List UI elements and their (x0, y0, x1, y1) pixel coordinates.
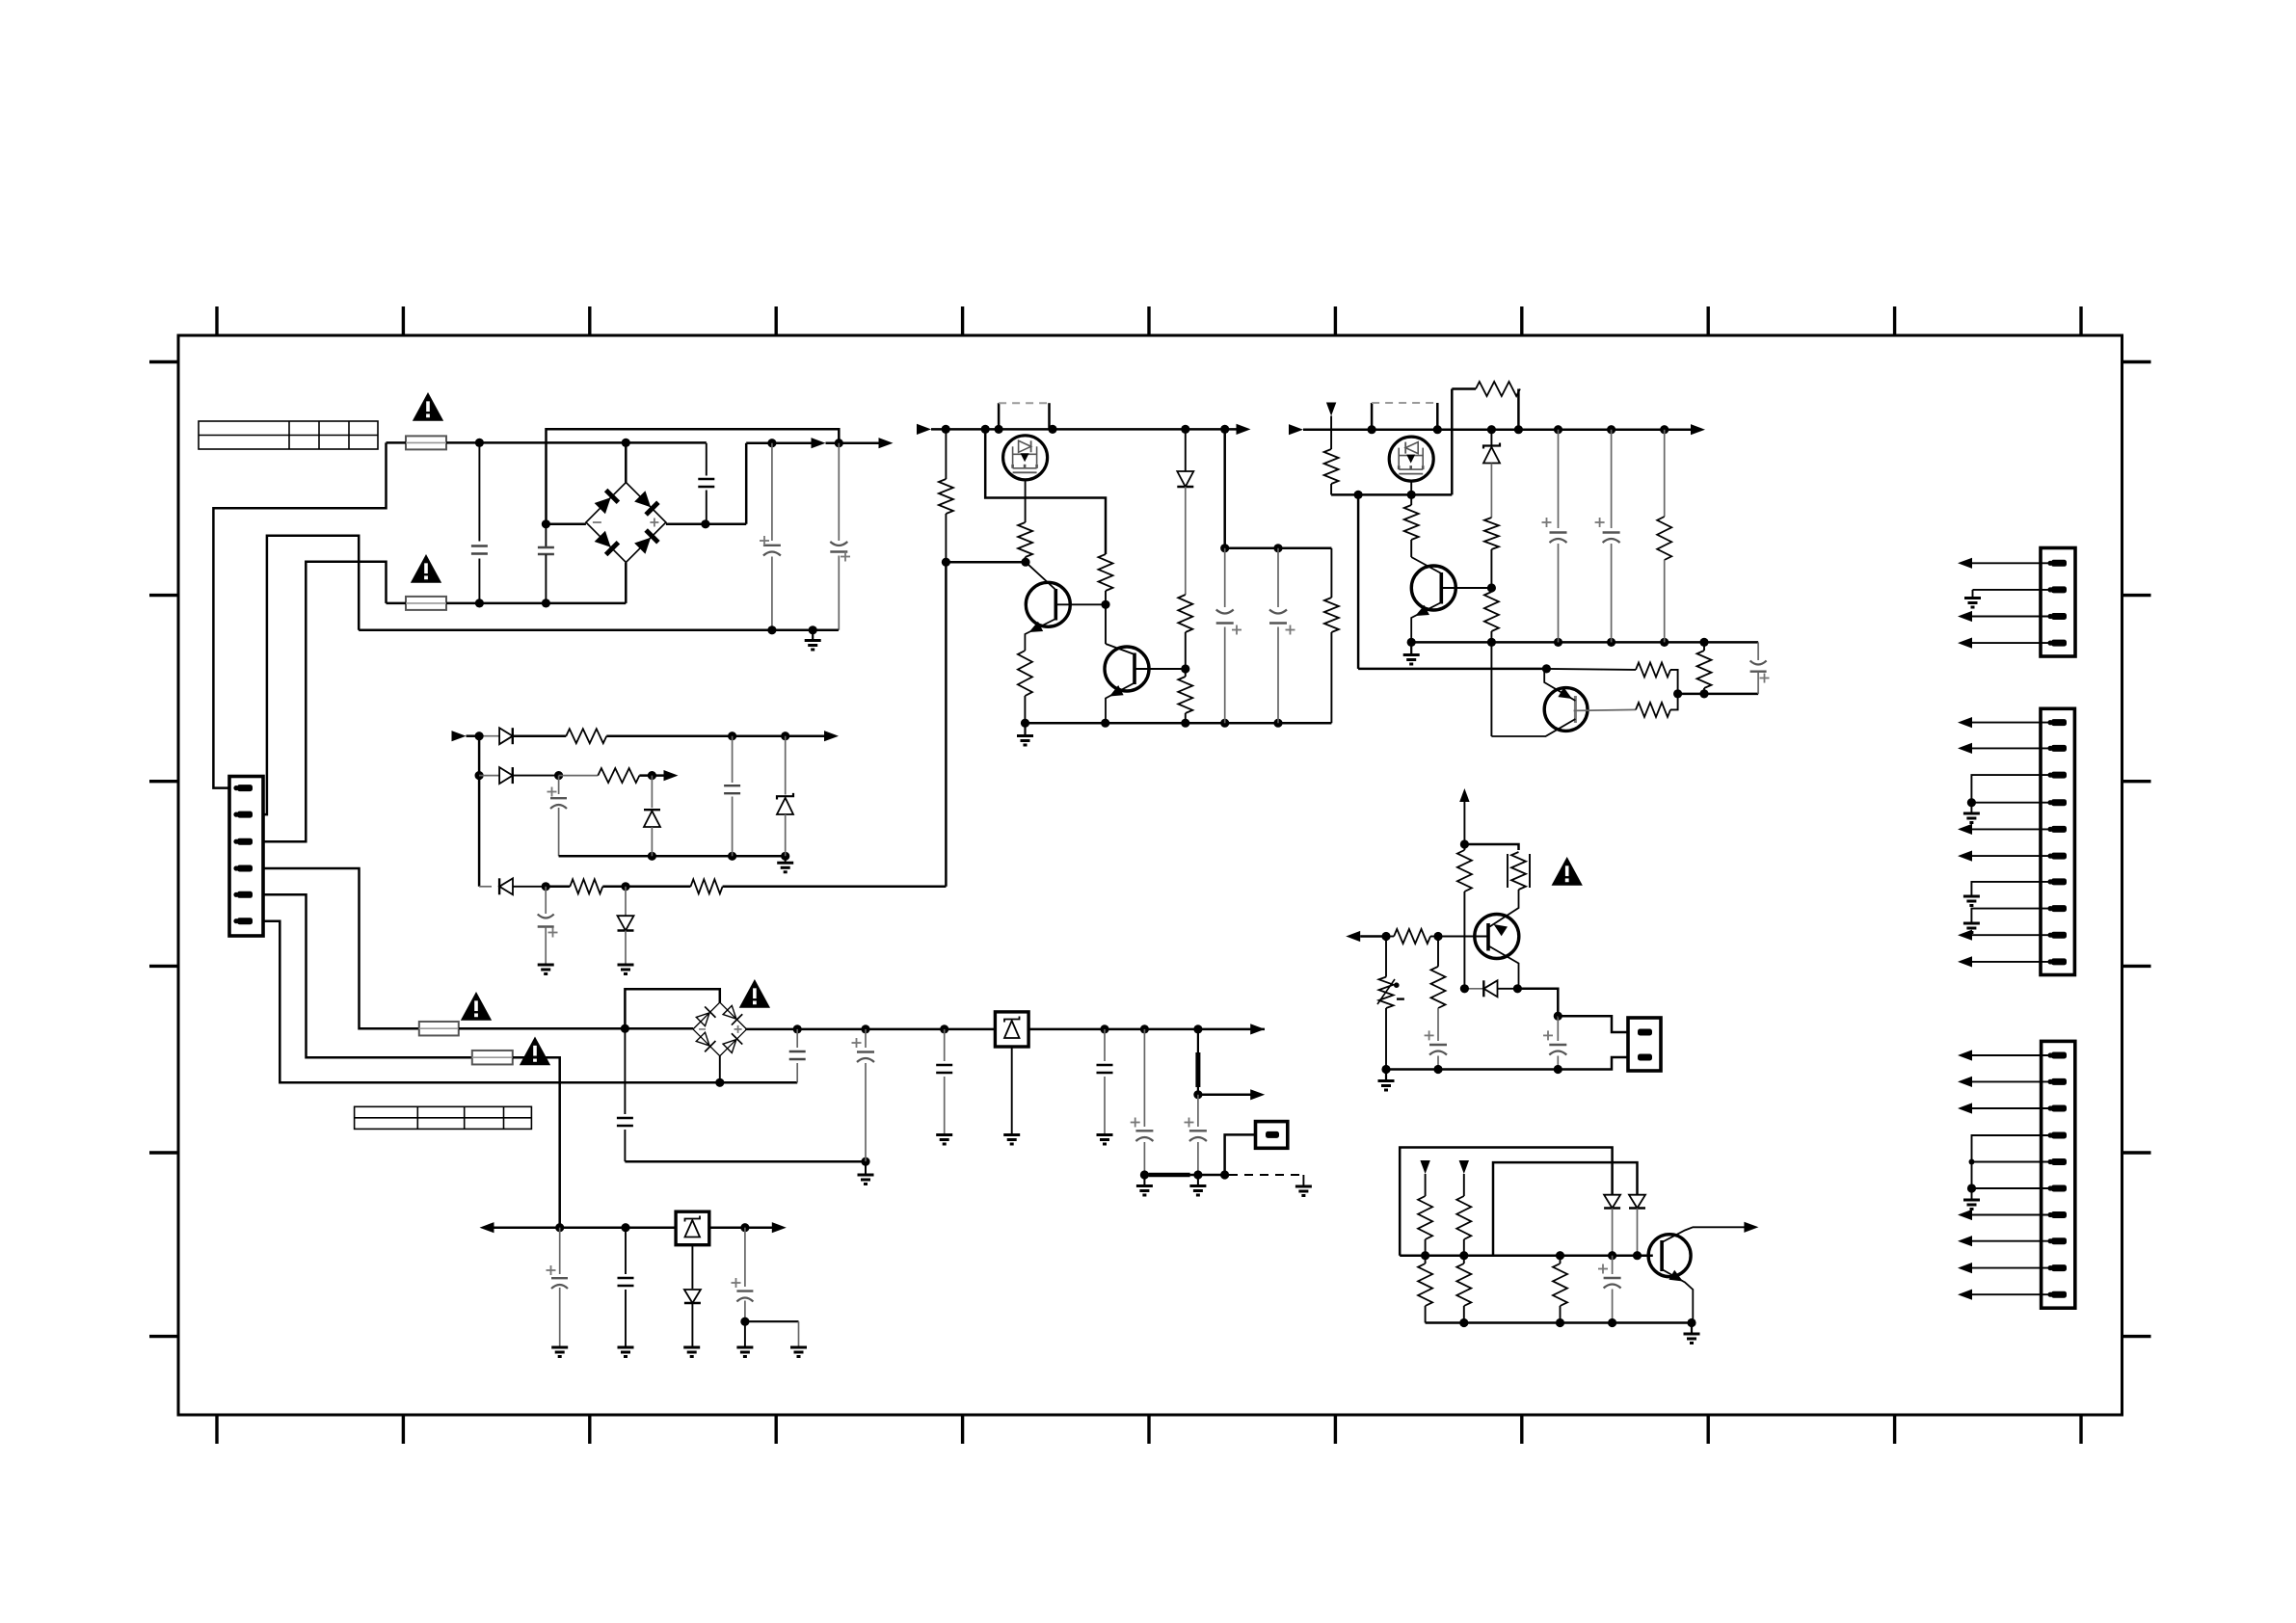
warning triangle W2 (411, 554, 441, 583)
arrow (452, 731, 467, 741)
junction (542, 882, 550, 891)
wire (1972, 1214, 2051, 1216)
junction (1607, 425, 1615, 434)
junction (1687, 1318, 1695, 1327)
resistor R7 (1178, 595, 1192, 632)
junction (1459, 1251, 1468, 1260)
wire base Q3 (1135, 668, 1186, 670)
connector J3 pin 7 (2047, 1211, 2067, 1218)
capacitor C16 (1131, 1029, 1154, 1175)
boxed zener U2 (676, 1211, 709, 1245)
diode D9 (684, 1245, 701, 1347)
junction (648, 771, 656, 780)
wire (1463, 1239, 1465, 1256)
wire (1972, 934, 2051, 936)
junction (1193, 1090, 1202, 1099)
connector J3 pin 8 (2047, 1237, 2067, 1244)
arrow (1237, 424, 1251, 435)
connector J3 pin 6 (2047, 1185, 2067, 1192)
wire (1185, 669, 1187, 723)
capacitor C19 (618, 1228, 634, 1347)
wire loop (547, 429, 840, 524)
wire (1670, 670, 1678, 694)
wire pin1 feed (213, 442, 386, 787)
junction (1487, 638, 1496, 647)
ground (1017, 723, 1033, 745)
zener D10 (1483, 430, 1500, 518)
dashed link (1372, 403, 1437, 430)
connector J2 pin 5 (2047, 826, 2067, 833)
resistor R12 (570, 879, 602, 893)
junction (1967, 798, 1976, 807)
junction (1487, 425, 1496, 434)
resistor R11 (598, 768, 639, 783)
wire (1410, 494, 1412, 557)
resistor R14 (1324, 449, 1339, 484)
junction (1660, 425, 1669, 434)
junction (621, 882, 629, 891)
junction (1554, 1065, 1562, 1074)
junction (475, 732, 484, 740)
wire (1330, 548, 1332, 598)
border tick marks top-bottom (217, 306, 2081, 1444)
transistor Q2 (1025, 562, 1070, 651)
wire (1410, 481, 1412, 494)
off-page arrow (1420, 1160, 1429, 1196)
capacitor C17 (1185, 1095, 1207, 1175)
connector J2 pin 8 (2047, 905, 2067, 912)
wire bridge minus (546, 523, 586, 526)
capacitor C20 (732, 1228, 754, 1322)
wire (1185, 632, 1187, 669)
wire (1972, 1187, 2052, 1189)
arrow (1958, 956, 1972, 967)
wire (1972, 616, 2051, 618)
connector J3 pin 5 (2047, 1158, 2067, 1165)
junction (1407, 638, 1416, 647)
connector J3 pin 10 (2047, 1291, 2067, 1298)
connector J3 pin 2 (2047, 1078, 2067, 1085)
wire junction row (1400, 1254, 1653, 1257)
capacitor CX2 (538, 524, 554, 603)
connector J2 pin 9 (2047, 932, 2067, 939)
wire pin4 feed (263, 868, 419, 1028)
junction (861, 1157, 869, 1166)
junction (1421, 1251, 1429, 1260)
wire (1972, 1293, 2051, 1295)
junction (1608, 1251, 1616, 1260)
junction (1542, 664, 1551, 673)
junction (1554, 638, 1562, 647)
wire (1560, 1256, 1562, 1323)
ground (1136, 1175, 1153, 1195)
ground (1003, 1135, 1020, 1145)
wire top2 (1493, 1162, 1638, 1256)
diode D8 (618, 887, 634, 965)
junction (1381, 1065, 1390, 1074)
wire (826, 441, 880, 444)
junction (793, 1024, 802, 1033)
junction (542, 519, 550, 528)
mosfet Q4 (1389, 437, 1433, 481)
junction (1433, 1065, 1442, 1074)
border tick marks left-right (149, 362, 2151, 1337)
junction (1193, 1024, 1202, 1033)
wire out B2 (745, 1028, 995, 1031)
wire (513, 734, 567, 737)
transistor Q5p (1491, 669, 1588, 736)
wire (1971, 882, 2051, 896)
capacitor C12 (789, 1029, 806, 1082)
junction (1433, 932, 1442, 941)
junction (621, 1223, 629, 1232)
wire (1703, 642, 1705, 694)
junction (1181, 425, 1189, 434)
resistor R8 (1178, 677, 1192, 713)
warning triangle W5 (739, 979, 770, 1008)
wire (606, 734, 825, 737)
wire (1024, 696, 1026, 723)
junction (542, 599, 550, 607)
wire top1 (1400, 1148, 1612, 1256)
zener D6 (777, 736, 793, 857)
wire (1972, 1267, 2051, 1269)
junction (1514, 425, 1523, 434)
wire (625, 442, 627, 482)
wire (1463, 844, 1465, 989)
resistor R28 (1456, 1196, 1471, 1239)
wire pin6 feed (263, 921, 797, 1083)
wire (1105, 604, 1107, 644)
wire pin2 feed (263, 536, 359, 814)
junction (767, 439, 776, 447)
ground (936, 1135, 952, 1145)
wire (1972, 855, 2051, 857)
wire (1025, 557, 1027, 562)
wire (1011, 1047, 1013, 1134)
resistor R29 (1456, 1264, 1471, 1306)
ground (1963, 896, 1980, 906)
wire (1972, 1135, 2052, 1188)
junction (715, 1078, 724, 1087)
wire (719, 1056, 721, 1083)
capacitor C6 (1216, 548, 1241, 723)
wire bottom M2 (1411, 641, 1758, 644)
wire (1360, 935, 1386, 938)
junction (1699, 638, 1708, 647)
connector J2 pin 2 (2047, 745, 2067, 752)
transistor Q7n (1648, 1227, 1745, 1322)
wire (1546, 669, 1636, 670)
arrow (1744, 1222, 1758, 1233)
fuse F2 (406, 597, 446, 610)
fuse F4 (472, 1051, 513, 1065)
thermistor RT1 (1508, 852, 1530, 890)
junction (1407, 491, 1416, 499)
ground (1295, 1186, 1312, 1196)
junction (1673, 689, 1682, 698)
wire (1558, 1016, 1628, 1032)
junction (1433, 425, 1442, 434)
wire (745, 443, 748, 524)
wire bottom M1 (1026, 722, 1332, 725)
resistor R26 (1418, 1196, 1432, 1239)
junction (1969, 1159, 1975, 1165)
connector J1 pin 2 (2047, 586, 2067, 593)
fuse F1 (406, 436, 446, 449)
wire (446, 441, 707, 444)
junction (781, 852, 789, 861)
connector J2 pin 10 (2047, 958, 2067, 965)
wire base Q6 (1574, 709, 1636, 710)
connector J1 pin 1 (2047, 560, 2067, 567)
wire bottom LED (1426, 1321, 1694, 1324)
connector J2 pin 3 (2047, 772, 2067, 779)
arrow (1250, 1089, 1265, 1100)
wire (387, 441, 407, 444)
junction (1460, 839, 1469, 848)
connector P1 pin 3 (233, 838, 253, 845)
ground (1684, 1323, 1700, 1344)
capacitor C22 (1595, 430, 1620, 643)
wire (1972, 1107, 2051, 1109)
ground (1963, 813, 1980, 823)
junction (740, 1223, 749, 1232)
wire (387, 602, 407, 605)
junction (1048, 425, 1056, 434)
capacitor C18 (547, 1228, 569, 1347)
bridge rectifier B1 (586, 483, 666, 563)
arrow (1958, 1290, 1972, 1300)
junction (809, 625, 817, 634)
junction (622, 439, 630, 447)
junction (1554, 1012, 1562, 1021)
arrow (1958, 824, 1972, 835)
junction (555, 1223, 564, 1232)
connector J2 pin 4 (2047, 799, 2067, 806)
wire (1972, 961, 2051, 963)
junction (981, 425, 990, 434)
wire row3 (546, 886, 570, 889)
junction (1633, 1251, 1642, 1260)
arrow (1958, 611, 1972, 622)
capacitor C24 (1425, 1008, 1447, 1070)
junction (621, 1024, 629, 1033)
connector P1 pin 1 (233, 785, 253, 791)
ground (618, 1347, 634, 1357)
ground (1378, 1070, 1395, 1091)
zener D2 (1177, 429, 1193, 595)
wire (1973, 590, 2052, 598)
arrow (1958, 1210, 1972, 1220)
arrow (772, 1222, 787, 1233)
wire pin3 feed (263, 562, 387, 841)
connector J2 (2041, 708, 2074, 974)
junction (1140, 1024, 1149, 1033)
junction (728, 852, 736, 861)
wire (1971, 802, 2051, 804)
wire pin5 feed (263, 894, 472, 1057)
capacitor C11 (617, 1028, 633, 1161)
arrow (812, 438, 826, 448)
junction (1607, 638, 1615, 647)
wire (1225, 1134, 1256, 1175)
revision table top-left (199, 421, 378, 449)
junction (475, 771, 484, 780)
arrow (1958, 638, 1972, 649)
junction (728, 732, 736, 740)
ground (1964, 599, 1981, 608)
wire y720 (1678, 693, 1759, 696)
capacitor C25 (1543, 1016, 1566, 1069)
connector J3 (2042, 1041, 2075, 1308)
junction (942, 425, 950, 434)
junction (1021, 719, 1029, 728)
junction (1220, 544, 1229, 552)
wire (1358, 668, 1546, 671)
wire (639, 774, 665, 777)
ground (618, 965, 634, 974)
wire (946, 561, 1026, 564)
arrow (1289, 424, 1303, 435)
capacitor C23 (1750, 642, 1770, 694)
junction (1608, 1318, 1616, 1327)
junction (1220, 719, 1229, 728)
dashed wire (1229, 1175, 1303, 1186)
junction (1220, 1170, 1229, 1179)
warning triangle W3 (461, 992, 492, 1021)
wire (1198, 1094, 1251, 1097)
junction (1100, 1024, 1108, 1033)
wire sub-bottom (559, 855, 786, 858)
capacitor C4 (760, 443, 781, 630)
junction (648, 852, 656, 861)
resistor R21 (1697, 651, 1712, 688)
junction (1459, 1318, 1468, 1327)
wire box bottom (625, 1160, 866, 1163)
connector P1 pin 2 (233, 811, 253, 818)
resistor R22 (1636, 703, 1670, 717)
connector J3 pin 3 (2047, 1105, 2067, 1112)
arrow (824, 731, 839, 741)
connector J2 pin 7 (2047, 878, 2067, 885)
warning triangle W4 (520, 1037, 550, 1066)
junction (1021, 558, 1029, 567)
junction (1487, 583, 1496, 592)
wire (459, 1027, 693, 1030)
diode D4 (479, 767, 558, 784)
arrow (1958, 1236, 1972, 1246)
connector J3 pin 9 (2047, 1264, 2067, 1271)
connector J3 pin 1 (2047, 1052, 2067, 1059)
wire row1 (467, 734, 500, 737)
junction (1181, 664, 1189, 673)
junction (1101, 719, 1109, 728)
ground (777, 856, 793, 872)
arrow (1958, 1103, 1972, 1113)
connector J1 pin 3 (2047, 613, 2067, 620)
arrow (1250, 1024, 1265, 1034)
wire bottom Q7 (1386, 1068, 1558, 1071)
thick link (1197, 1029, 1199, 1095)
junction (1273, 719, 1282, 728)
capacitor C15 (1097, 1029, 1113, 1134)
arrow (1958, 930, 1972, 941)
junction (995, 425, 1003, 434)
dashed link (999, 403, 1049, 429)
wire (1972, 828, 2051, 830)
resistor R19 (1657, 430, 1671, 643)
resistor R16 (1404, 505, 1419, 540)
resistor R23 (1457, 850, 1472, 891)
arrow (917, 424, 931, 435)
connector P5 (1256, 1122, 1288, 1149)
capacitor C7 (1269, 548, 1295, 723)
junction (1354, 491, 1363, 499)
connector P1 (229, 777, 263, 937)
ground (1189, 1175, 1206, 1195)
wire (1225, 547, 1332, 550)
wire rail M2 (1303, 428, 1692, 431)
wire (1517, 389, 1520, 430)
junction (1513, 984, 1522, 993)
wire (1452, 389, 1476, 495)
junction (1660, 638, 1669, 647)
wire rail M1 (931, 428, 1237, 431)
wire (1971, 909, 2051, 923)
wire (1972, 1080, 2051, 1082)
junction (861, 1024, 869, 1033)
junction (767, 625, 776, 634)
resistor R15 (1476, 382, 1520, 396)
arrow (664, 770, 679, 781)
junction (1460, 984, 1469, 993)
resistor R5 (1099, 554, 1113, 591)
wire (1972, 1054, 2051, 1056)
junction (701, 519, 709, 528)
junction (1181, 719, 1189, 728)
resistor R24 (1394, 929, 1430, 944)
revision table lower-left (355, 1106, 532, 1129)
wire return (359, 629, 839, 632)
ground (683, 1347, 700, 1357)
ground (790, 1347, 807, 1357)
wire (1490, 549, 1492, 588)
wire base Q2 (1055, 603, 1106, 605)
wire rail DC1 (746, 441, 812, 444)
boxed zener U1 (995, 1012, 1028, 1047)
capacitor C14 (936, 1029, 952, 1134)
resistor R30 (1553, 1264, 1567, 1306)
junction (940, 1024, 948, 1033)
arrow (1958, 717, 1972, 728)
capacitor C10 (538, 887, 558, 965)
resistor R20 (1636, 662, 1670, 677)
wire (1425, 1256, 1427, 1323)
diode D12 (1604, 1195, 1620, 1256)
ground (1963, 1200, 1980, 1210)
fuse F3 (419, 1022, 459, 1036)
wire (625, 563, 627, 603)
junction (781, 732, 789, 740)
junction (475, 439, 484, 447)
ground (1097, 1135, 1113, 1145)
resistor R18 (1484, 592, 1499, 631)
arrow (1958, 1263, 1972, 1273)
warning triangle W1 (413, 392, 443, 421)
capacitor C3 (698, 443, 714, 524)
wire (1972, 747, 2051, 749)
